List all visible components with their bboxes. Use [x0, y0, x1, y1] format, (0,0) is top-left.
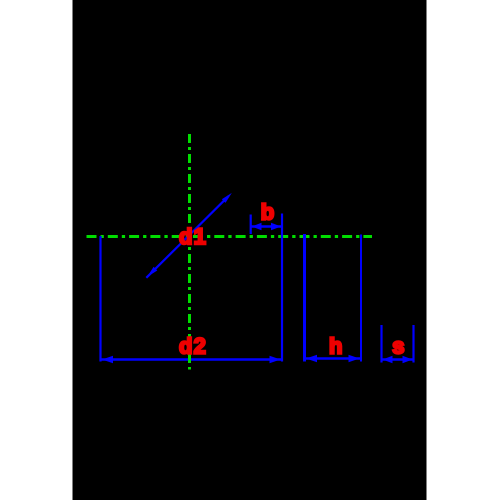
h arrow left — [306, 355, 317, 362]
h arrow right — [349, 355, 360, 362]
horizontal centerline (green dash-dot) — [87, 235, 373, 238]
d2 arrow right — [270, 356, 281, 363]
svg-text:s: s — [392, 334, 405, 359]
svg-text:d2: d2 — [179, 334, 207, 359]
h right extension line — [360, 235, 362, 362]
b left tick — [250, 215, 252, 235]
b arrow left — [252, 223, 262, 230]
vertical centerline (green dash-dot, drawn over blue d2 line) — [188, 134, 191, 370]
s left extension line — [380, 325, 382, 363]
black drawing area — [73, 0, 427, 500]
d2 arrow left — [102, 356, 113, 363]
diagonal d1 dimension line — [146, 196, 228, 278]
svg-text:b: b — [261, 200, 276, 225]
s arrow right — [403, 356, 413, 363]
s right extension line — [412, 325, 414, 363]
h dimension line — [306, 357, 361, 359]
svg-text:h: h — [329, 334, 344, 359]
s arrow left — [383, 356, 393, 363]
s dimension line — [383, 358, 413, 360]
b arrow right — [271, 223, 281, 230]
h left extension line — [303, 234, 306, 362]
d1 arrowhead lower-left — [147, 267, 157, 277]
d1 arrowhead upper-right — [222, 193, 232, 203]
d2 left extension line — [99, 236, 101, 362]
d2 right extension line (shared with b) — [281, 214, 283, 362]
svg-text:d1: d1 — [179, 224, 207, 249]
b dimension line — [252, 225, 282, 227]
d2 dimension line — [102, 358, 282, 360]
